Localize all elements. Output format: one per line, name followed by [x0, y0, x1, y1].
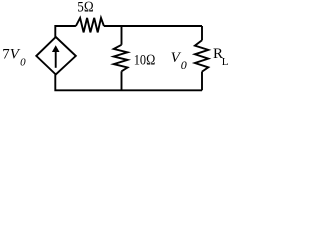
wire middle branch top	[121, 26, 123, 45]
svg-text:10Ω: 10Ω	[134, 53, 156, 69]
wire top right segment	[104, 25, 202, 27]
dependent current source diamond	[36, 37, 76, 75]
resistor 5ohm zigzag	[76, 18, 104, 33]
resistor RL zigzag	[195, 40, 208, 71]
svg-text:L: L	[222, 56, 228, 68]
resistor 10ohm zigzag	[114, 45, 128, 72]
svg-text:0: 0	[20, 56, 26, 68]
wire top from source to 5-ohm resistor	[55, 26, 76, 37]
svg-text:V: V	[10, 47, 21, 63]
arrow inside source	[55, 51, 57, 68]
wire right branch bottom	[201, 72, 203, 91]
svg-text:5Ω: 5Ω	[77, 0, 94, 16]
svg-text:0: 0	[181, 58, 187, 72]
wire middle branch bottom	[121, 71, 123, 90]
wire right branch top	[201, 26, 203, 40]
wire source bottom	[55, 75, 202, 91]
